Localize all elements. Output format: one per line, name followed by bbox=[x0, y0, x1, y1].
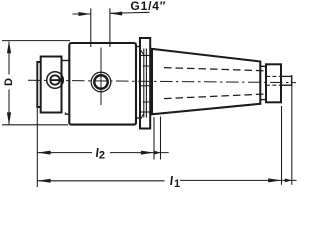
end boss bbox=[266, 64, 281, 102]
V-flange collar bbox=[140, 38, 150, 129]
V-flange chamfer top bbox=[140, 49, 144, 55]
V-flange groove wall right bbox=[145, 49, 147, 118]
dim G extension line left bbox=[90, 8, 92, 47]
dim G left leader bbox=[73, 13, 91, 15]
screw S2 vertical centerline bbox=[100, 48, 102, 106]
V-flange shoulder bottom bbox=[140, 111, 150, 113]
arrowhead l2 right main bbox=[141, 151, 154, 155]
nose cylinder front bbox=[37, 62, 41, 107]
dim l1 line right bbox=[180, 179, 297, 181]
screw S1 slot bbox=[51, 79, 60, 81]
label l1 bbox=[169, 174, 174, 188]
dim l2 line right bbox=[110, 152, 169, 154]
neck between body and V-flange top bbox=[136, 46, 141, 48]
svg-text:2: 2 bbox=[99, 150, 105, 162]
centerline main axis bbox=[28, 80, 296, 82]
hidden thread line upper bbox=[164, 68, 266, 71]
dim G extension line right bbox=[109, 8, 111, 47]
V-flange lower groove line bbox=[143, 101, 150, 103]
dim l2 extension line B bbox=[160, 117, 162, 160]
hidden stub hole lower bbox=[266, 84, 281, 86]
V-flange upper groove line bbox=[143, 65, 150, 67]
V-flange shoulder top bbox=[140, 55, 150, 57]
screw S1 inner slot circle bbox=[50, 75, 59, 84]
end neck top edge bbox=[260, 65, 266, 67]
dim D extension top bbox=[2, 40, 70, 42]
label l2 bbox=[95, 146, 100, 160]
screw S2 core circle bbox=[94, 75, 107, 88]
neck between body and V-flange bottom bbox=[136, 117, 141, 119]
hidden thread line lower bbox=[164, 94, 266, 99]
arrowhead l1 right main bbox=[268, 178, 281, 182]
V-flange mid line bbox=[141, 85, 150, 87]
svg-text:D: D bbox=[3, 78, 15, 86]
arrowhead G right bbox=[110, 12, 122, 16]
arrowhead l1 right tandem bbox=[285, 179, 292, 183]
shared left extension line bbox=[36, 108, 38, 187]
arrowhead l2 right tandem bbox=[154, 151, 160, 155]
dim D extension bottom bbox=[2, 124, 68, 126]
stub tip bbox=[281, 76, 292, 85]
arrowhead l1 left bbox=[37, 179, 50, 183]
screw S1 outer head bbox=[47, 72, 64, 89]
dim G right leader bbox=[110, 12, 150, 13]
screw S2 thread circle bbox=[91, 72, 111, 92]
dim l2 line left bbox=[37, 152, 92, 154]
arrowhead D down bbox=[7, 112, 11, 124]
dim l1 extension line A bbox=[281, 106, 283, 185]
neck between ring and body top edge bbox=[62, 60, 70, 62]
hidden stub hole upper bbox=[266, 75, 281, 77]
clamp ring flange bbox=[41, 57, 62, 113]
dim l2 extension line A bbox=[153, 117, 155, 160]
arrowhead l2 left bbox=[37, 151, 50, 155]
V-flange groove wall left bbox=[143, 49, 145, 118]
arrowhead G left bbox=[79, 12, 91, 16]
dim D line bbox=[8, 42, 10, 75]
neck between ring and body bottom edge bbox=[66, 113, 70, 115]
V-flange chamfer bottom bbox=[140, 114, 144, 121]
taper cone ISO shank bbox=[152, 49, 260, 114]
arrowhead D up bbox=[7, 41, 11, 53]
dim l1 extension line B bbox=[291, 75, 293, 185]
svg-text:1: 1 bbox=[174, 178, 180, 190]
end neck bottom edge bbox=[260, 99, 266, 101]
svg-text:G1/4″: G1/4″ bbox=[130, 0, 166, 13]
dim l1 line left bbox=[37, 180, 164, 182]
main body bbox=[69, 43, 136, 125]
